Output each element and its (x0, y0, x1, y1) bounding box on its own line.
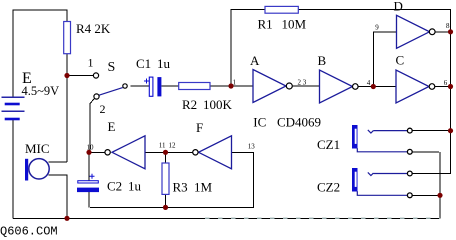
svg-text:MIC: MIC (25, 141, 50, 156)
svg-text:B: B (318, 53, 327, 68)
svg-text:6: 6 (444, 79, 448, 87)
svg-text:8: 8 (446, 22, 450, 30)
svg-text:1u: 1u (157, 56, 171, 71)
svg-text:4.5~9V: 4.5~9V (22, 84, 60, 98)
svg-text:13: 13 (248, 142, 256, 150)
svg-text:2: 2 (100, 102, 106, 116)
svg-text:1: 1 (233, 79, 237, 87)
svg-text:R1: R1 (258, 17, 273, 32)
svg-text:10M: 10M (282, 17, 307, 32)
svg-text:CZ2: CZ2 (317, 180, 340, 195)
svg-text:C: C (396, 53, 405, 68)
svg-text:2 3: 2 3 (298, 79, 307, 87)
svg-text:S: S (108, 60, 116, 75)
svg-text:R4 2K: R4 2K (76, 21, 111, 36)
svg-text:A: A (250, 53, 260, 68)
svg-text:11: 11 (159, 142, 166, 150)
svg-text:R3: R3 (173, 180, 188, 195)
svg-text:4: 4 (367, 79, 371, 87)
svg-text:9: 9 (375, 23, 379, 31)
svg-text:100K: 100K (203, 97, 233, 112)
svg-text:1: 1 (88, 56, 94, 70)
svg-text:C1: C1 (136, 56, 151, 71)
svg-text:CZ1: CZ1 (317, 137, 340, 152)
svg-text:R2: R2 (182, 97, 197, 112)
svg-text:C2: C2 (107, 179, 122, 194)
svg-text:E: E (108, 119, 116, 134)
svg-text:1M: 1M (194, 180, 213, 195)
svg-text:10: 10 (87, 144, 95, 152)
svg-text:Q606.COM: Q606.COM (0, 225, 58, 239)
svg-text:IC: IC (253, 115, 266, 130)
svg-text:CD4069: CD4069 (277, 115, 321, 130)
svg-text:12: 12 (169, 142, 177, 150)
svg-text:F: F (196, 120, 203, 135)
svg-text:D: D (394, 0, 403, 14)
svg-text:1u: 1u (128, 179, 142, 194)
